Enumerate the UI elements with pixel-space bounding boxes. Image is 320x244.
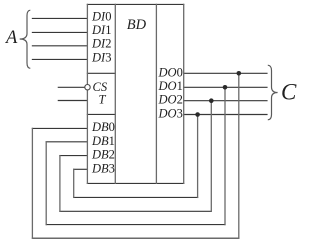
wire right riser of DB1 loop to DO1 [224, 87, 226, 224]
IC block top edge [87, 3, 183, 5]
svg-text:DI2: DI2 [91, 37, 111, 51]
wire left drop of DB0 loop [31, 128, 33, 238]
wire DB2 horizontal stub [60, 155, 88, 157]
svg-text:T: T [99, 93, 107, 107]
wire DO3 [184, 114, 267, 116]
active-low bubble on CS pin [85, 85, 90, 90]
wire right riser of DB3 loop to DO3 [197, 115, 199, 198]
svg-text:DI0: DI0 [91, 9, 111, 23]
svg-text:BD: BD [127, 17, 147, 33]
wire DO1 [184, 86, 267, 88]
svg-text:DO1: DO1 [158, 79, 183, 93]
junction dot on DO1 [223, 85, 228, 90]
left pin-column separator [114, 4, 116, 183]
svg-text:DO3: DO3 [158, 107, 183, 121]
wire right riser of DB2 loop to DO2 [210, 101, 212, 212]
wire CS [58, 86, 85, 88]
wire left drop of DB1 loop [45, 142, 47, 225]
wire DI1 [32, 31, 87, 33]
wire bottom run of DB0 loop [32, 237, 238, 239]
svg-text:A: A [4, 28, 18, 48]
svg-text:DI1: DI1 [91, 23, 111, 37]
junction dot on DO3 [195, 112, 200, 117]
wire right riser of DB0 loop to DO0 [238, 73, 240, 238]
separator below T section [87, 113, 115, 115]
wire DO0 [184, 72, 267, 74]
svg-text:DB0: DB0 [91, 120, 115, 134]
wire DB0 horizontal stub [32, 127, 87, 129]
svg-text:DB1: DB1 [91, 134, 115, 148]
wire DI3 [32, 58, 87, 60]
wire T [58, 100, 87, 102]
right pin-column separator [155, 4, 157, 183]
separator below DI3 section [87, 72, 115, 74]
wire left drop of DB3 loop [73, 169, 75, 197]
junction dot on DO2 [209, 98, 214, 103]
wire DO2 [184, 100, 267, 102]
IC block right edge [183, 4, 185, 183]
svg-text:DI3: DI3 [91, 50, 111, 64]
svg-text:C: C [281, 80, 297, 105]
brace for bus C [268, 65, 278, 120]
svg-text:DO0: DO0 [158, 65, 183, 79]
wire bottom run of DB2 loop [60, 210, 211, 212]
svg-text:DO2: DO2 [158, 93, 183, 107]
svg-text:DB3: DB3 [91, 161, 115, 175]
wire bottom run of DB1 loop [46, 224, 225, 226]
wire bottom run of DB3 loop [74, 196, 198, 198]
wire DB1 horizontal stub [46, 141, 87, 143]
IC block left edge [86, 4, 88, 183]
wire DB3 horizontal stub [74, 168, 88, 170]
junction dot on DO0 [237, 71, 242, 76]
wire left drop of DB2 loop [59, 156, 61, 212]
IC block bottom edge [87, 182, 183, 184]
wire DI0 [32, 17, 87, 19]
svg-text:DB2: DB2 [91, 148, 115, 162]
brace for bus A [20, 10, 31, 68]
wire DI2 [32, 45, 87, 47]
